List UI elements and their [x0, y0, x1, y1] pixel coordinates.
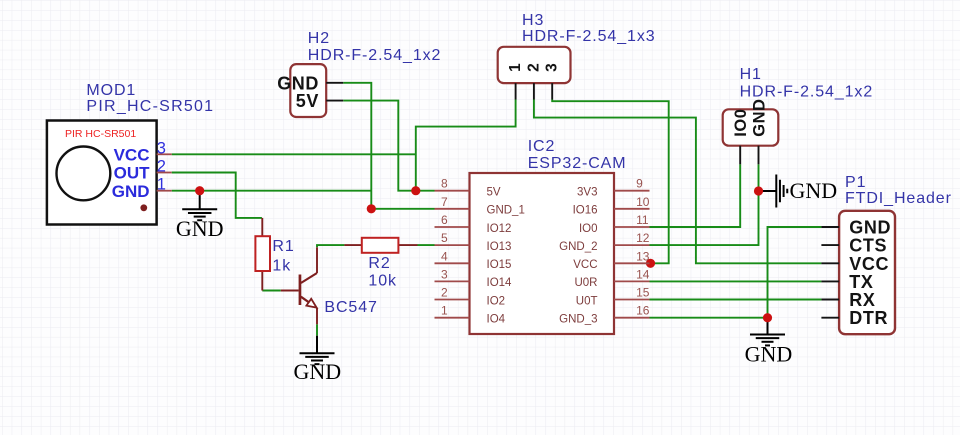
- IC2 left pin names: [487, 187, 525, 326]
- svg-text:PIR HC-SR501: PIR HC-SR501: [65, 128, 136, 140]
- svg-text:2: 2: [157, 158, 166, 176]
- Q1 base pin: [281, 290, 299, 292]
- svg-text:H1: H1: [740, 66, 762, 83]
- ground symbol at P1 GND net: [750, 318, 785, 346]
- svg-text:GND: GND: [790, 178, 838, 203]
- Q1 collector diagonal: [301, 273, 317, 283]
- svg-text:GND: GND: [176, 216, 224, 241]
- Q1 base bar: [299, 275, 302, 306]
- svg-text:1: 1: [441, 304, 448, 318]
- svg-text:P1: P1: [845, 174, 866, 191]
- svg-text:IO0: IO0: [579, 223, 598, 235]
- svg-text:IO0: IO0: [732, 109, 750, 137]
- IC IC2 ESP32-CAM: [435, 138, 650, 334]
- svg-text:HDR-F-2.54_1x3: HDR-F-2.54_1x3: [522, 28, 656, 45]
- Q1 emitter diagonal: [301, 297, 311, 304]
- wire IC2 pin16 GND_3 to ground node: [650, 317, 768, 319]
- wire junction to IC2 pin7 GND_1: [371, 208, 434, 210]
- Q1 collector lead: [316, 247, 318, 273]
- wire MOD1 VCC (pin3) to H3 pin1 vertical: [172, 153, 416, 155]
- H3 pin 3 stub: [551, 83, 553, 99]
- svg-text:HDR-F-2.54_1x2: HDR-F-2.54_1x2: [740, 83, 874, 100]
- svg-text:11: 11: [636, 213, 649, 227]
- R1 bottom lead: [261, 271, 263, 291]
- module MOD1 PIR_HC-SR501: [47, 82, 214, 224]
- MOD1 polarity dot: [140, 204, 147, 211]
- H1 pin 1 stub (IO0): [739, 146, 741, 165]
- R1 top lead: [261, 218, 263, 236]
- ground symbol at MOD1 GND net: [182, 191, 217, 221]
- svg-text:15: 15: [636, 286, 650, 300]
- svg-text:R1: R1: [272, 238, 294, 255]
- wire R1 bottom to Q1 base: [262, 290, 281, 292]
- svg-text:7: 7: [441, 195, 448, 209]
- IC2 left pin numbers: [441, 177, 448, 318]
- svg-text:TX: TX: [849, 272, 873, 292]
- P1 pin stubs GND,CTS,VCC,TX,RX,DTR: [821, 227, 839, 318]
- svg-text:4: 4: [441, 249, 448, 263]
- svg-text:VCC: VCC: [114, 146, 150, 165]
- svg-text:16: 16: [636, 304, 650, 318]
- resistor R2: [344, 238, 417, 290]
- svg-text:IO13: IO13: [487, 241, 512, 253]
- H1 pin 2 stub (GND): [758, 146, 760, 165]
- R2 right lead: [398, 244, 417, 246]
- svg-text:VCC: VCC: [849, 254, 889, 274]
- svg-text:GND: GND: [745, 342, 793, 367]
- svg-text:IO16: IO16: [573, 205, 598, 217]
- svg-text:13: 13: [636, 249, 650, 263]
- svg-text:10: 10: [636, 195, 650, 209]
- svg-text:8: 8: [441, 177, 448, 191]
- wire IC2 pin14 U0R to P1 TX: [650, 280, 822, 282]
- Q1 emitter lead: [316, 308, 318, 324]
- svg-text:MOD1: MOD1: [86, 82, 136, 99]
- wire R2 right to IC2 pin5 IO13: [418, 244, 435, 246]
- svg-text:VCC: VCC: [573, 259, 597, 271]
- svg-text:3: 3: [441, 267, 448, 281]
- svg-text:14: 14: [636, 267, 650, 281]
- wire P1 GND down to ground node: [768, 227, 822, 318]
- IC2 left pin stubs 8,7,6,5,4,3,2,1: [435, 191, 470, 318]
- svg-text:IO4: IO4: [487, 314, 506, 326]
- svg-text:GND_3: GND_3: [559, 314, 597, 326]
- wire IC2 pin15 U0T to P1 RX: [650, 299, 822, 301]
- svg-text:GND: GND: [849, 218, 891, 238]
- svg-text:BC547: BC547: [324, 299, 377, 316]
- svg-text:GND: GND: [751, 99, 769, 137]
- MOD1 pin 2 stub: [157, 172, 172, 174]
- svg-text:5V: 5V: [296, 91, 319, 111]
- wire H1 GND to IC2 pin12 GND_2: [650, 164, 759, 245]
- wire Q1 collector to R2 left: [317, 245, 344, 247]
- svg-text:3V3: 3V3: [577, 187, 597, 199]
- svg-text:2: 2: [441, 286, 448, 300]
- wire Q1 emitter to ground: [316, 324, 318, 335]
- junction H1 GND / ground symbol: [754, 186, 763, 195]
- wire H3 pin3 to IC2 pin13 VCC: [552, 100, 669, 264]
- wire 5V node to IC2 pin8: [416, 190, 435, 192]
- svg-text:12: 12: [636, 231, 650, 245]
- junction H2 GND / pin7 wire: [367, 204, 376, 213]
- svg-text:IC2: IC2: [528, 138, 556, 155]
- svg-text:CTS: CTS: [849, 236, 887, 256]
- svg-text:IO12: IO12: [487, 223, 512, 235]
- svg-text:1: 1: [157, 176, 166, 194]
- H3 pin 1 stub: [515, 83, 517, 99]
- svg-text:GND_2: GND_2: [559, 241, 597, 253]
- IC2 right pin names: [559, 187, 597, 326]
- svg-text:IO14: IO14: [487, 277, 513, 289]
- header H3 HDR-F-2.54_1x3: [498, 12, 656, 100]
- svg-text:GND: GND: [112, 182, 150, 201]
- junction MOD1 GND / ground symbol: [195, 186, 204, 195]
- svg-text:3: 3: [543, 63, 560, 72]
- svg-text:1: 1: [507, 63, 524, 72]
- MOD1 pin 1 stub: [157, 190, 172, 192]
- R2 left lead: [344, 244, 361, 246]
- svg-text:5V: 5V: [487, 187, 501, 199]
- svg-text:U0T: U0T: [576, 295, 598, 307]
- resistor R1: [255, 218, 294, 291]
- svg-text:FTDI_Header: FTDI_Header: [845, 190, 952, 207]
- svg-text:3: 3: [157, 139, 166, 157]
- Q1 emitter arrowhead: [306, 299, 316, 308]
- svg-text:PIR_HC-SR501: PIR_HC-SR501: [86, 98, 214, 115]
- ground symbol at Q1 emitter: [300, 336, 335, 364]
- svg-text:GND_1: GND_1: [487, 205, 525, 217]
- svg-text:5: 5: [441, 231, 448, 245]
- wire MOD1 OUT (pin2) to R1 top: [172, 173, 262, 218]
- H2 pin 1 stub (GND): [326, 82, 343, 84]
- wire H1 IO0 to IC2 pin11: [650, 164, 741, 227]
- wire H3 pin1 to 5V node: [416, 100, 516, 191]
- svg-text:IO2: IO2: [487, 295, 506, 307]
- junction 5V node at pin8 wire: [411, 186, 420, 195]
- wire H3 pin2 to P1 VCC: [534, 100, 822, 264]
- svg-text:U0R: U0R: [574, 277, 597, 289]
- IC2 right pin numbers: [636, 177, 650, 318]
- svg-text:9: 9: [636, 177, 643, 191]
- junction IC2 pin13 VCC: [646, 259, 655, 268]
- H3 pin 2 stub: [533, 83, 535, 99]
- svg-text:DTR: DTR: [849, 308, 888, 328]
- svg-text:R2: R2: [368, 255, 390, 272]
- svg-text:6: 6: [441, 213, 448, 227]
- svg-text:H3: H3: [522, 12, 544, 29]
- svg-text:IO15: IO15: [487, 259, 512, 271]
- junction GND_3 / P1 GND / ground: [763, 313, 772, 322]
- MOD1 pin 3 stub: [157, 153, 172, 155]
- header H2 HDR-F-2.54_1x2: [277, 30, 441, 117]
- header H1 HDR-F-2.54_1x2: [723, 66, 873, 164]
- svg-text:RX: RX: [849, 290, 875, 310]
- IC2 right pin stubs 9..16: [614, 191, 650, 318]
- MOD1 sensor dome circle: [57, 147, 111, 201]
- transistor Q1 BC547: [281, 247, 378, 324]
- ground symbol at H1 GND net (rotated right): [759, 175, 788, 208]
- svg-text:HDR-F-2.54_1x2: HDR-F-2.54_1x2: [308, 47, 442, 64]
- wire H2 5V down to 5V node: [343, 101, 416, 191]
- svg-text:ESP32-CAM: ESP32-CAM: [528, 155, 627, 172]
- wire MOD1 GND (pin1) to H2 GND vertical: [172, 190, 372, 192]
- svg-text:1k: 1k: [272, 258, 291, 275]
- svg-text:H2: H2: [308, 30, 330, 47]
- H2 pin 2 stub (5V): [326, 100, 343, 102]
- svg-text:GND: GND: [293, 359, 341, 384]
- connector P1 FTDI_Header: [821, 174, 951, 334]
- svg-text:2: 2: [525, 63, 542, 72]
- svg-text:OUT: OUT: [114, 164, 151, 183]
- svg-text:10k: 10k: [368, 273, 397, 290]
- wire H2 GND down to IC2 pin7 row: [343, 83, 371, 209]
